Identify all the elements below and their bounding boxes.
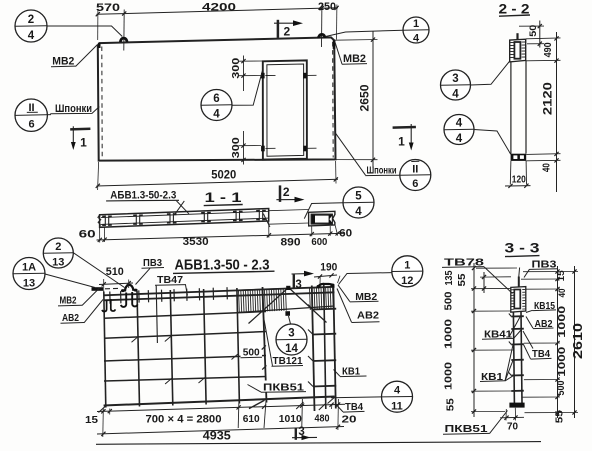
callout 2/13 leader: [73, 253, 124, 288]
svg-text:1: 1: [404, 259, 410, 271]
opening anchor top-right: [303, 73, 307, 79]
2-2 ext 120 right: [525, 161, 527, 185]
label TV78 leader: [484, 267, 513, 294]
plan designation leader a: [177, 201, 189, 214]
column loop bar: [318, 284, 333, 288]
1-1 ext a: [99, 228, 101, 243]
svg-text:5020: 5020: [211, 169, 236, 181]
mesh loop PV3 right leg: [132, 292, 137, 306]
callout circle 5/4: [343, 187, 374, 218]
plan designation leader b: [175, 201, 184, 214]
callout 4/11 leader: [331, 396, 382, 399]
opening anchor bottom-left: [261, 146, 265, 152]
tick 190 b: [329, 273, 333, 277]
svg-text:ТВ4: ТВ4: [532, 348, 550, 360]
tick 4935 b: [336, 425, 340, 429]
svg-text:3: 3: [288, 328, 294, 340]
plan designation underline: [106, 199, 179, 202]
shponki left II underline: [27, 111, 38, 113]
mesh dim1 tick 3: [237, 405, 241, 409]
tick 510 a: [102, 282, 106, 286]
mesh vertical v9 right edge: [333, 284, 336, 409]
mesh loop blob left: [121, 289, 125, 292]
label TV47 leader: [186, 285, 188, 296]
label AB2 mr underline: [352, 321, 380, 324]
svg-text:Шпонки: Шпонки: [367, 164, 397, 176]
callout circle 2/4: [15, 10, 47, 42]
svg-text:2: 2: [55, 241, 61, 253]
label TV78 underline: [442, 266, 484, 269]
callout circle 1/4: [403, 17, 429, 43]
label TV47 leader long: [156, 286, 157, 343]
mesh vertical v6 door-left: [263, 287, 267, 403]
callout circle 1A/13: [13, 258, 45, 290]
2-2 bar right edge: [525, 60, 527, 153]
svg-text:1000: 1000: [444, 361, 455, 390]
2650 ext top: [335, 39, 378, 42]
door opening inner rectangle: [267, 64, 304, 156]
300 top dim line: [243, 56, 245, 92]
mesh title underline: [173, 271, 275, 273]
tick 190 a: [318, 274, 322, 278]
2-2 ext 50 top: [519, 25, 544, 27]
label KV1 33 underline: [480, 380, 505, 383]
2-2 ext 490 top: [526, 37, 561, 40]
svg-text:500: 500: [243, 347, 260, 359]
3-3 rext y397: [522, 396, 560, 398]
svg-text:250: 250: [318, 1, 336, 13]
title 2-2 underline: [499, 15, 530, 16]
label TV4 33 leader a: [524, 345, 531, 359]
callout 3/14 leader: [289, 316, 291, 324]
mesh ext a: [102, 408, 105, 437]
mesh dim1 tick 4: [262, 405, 266, 409]
2-2 bar left edge: [510, 62, 512, 154]
bar right block outline: [309, 211, 335, 226]
tick 570 right: [122, 11, 126, 15]
svg-text:АБВ1.3-50-2.3: АБВ1.3-50-2.3: [110, 190, 176, 202]
svg-text:2 - 2: 2 - 2: [499, 0, 530, 16]
label MB2 mr leader: [338, 285, 350, 302]
tick 50 a: [538, 24, 542, 28]
1-1 ext e: [329, 226, 331, 236]
tick 250 right: [335, 6, 339, 10]
shponki right II overline: [411, 160, 419, 162]
svg-text:13: 13: [52, 256, 64, 268]
svg-text:6: 6: [213, 93, 219, 105]
300 bottom ext 2: [239, 159, 259, 161]
label TV4 33 leader b: [523, 331, 533, 349]
3-3 left tick 1: [472, 266, 476, 270]
label PV3 33 underline: [530, 268, 559, 271]
510 ext b: [128, 280, 130, 289]
3-3 ext y288: [471, 287, 511, 289]
callout 6/4 leader: [232, 69, 263, 106]
tick 2650 bottom: [371, 158, 375, 162]
3-3 top box stitch hatch: [511, 289, 514, 291]
tick 300b a: [241, 144, 245, 148]
svg-text:II: II: [412, 163, 418, 175]
label TV4 leader: [336, 405, 343, 412]
svg-text:1А: 1А: [22, 262, 36, 274]
anchor tick line 2: [307, 74, 316, 76]
callout 1/4 leader: [326, 30, 404, 36]
label MB2 right leader: [335, 42, 342, 65]
svg-text:490: 490: [542, 42, 554, 57]
callout circle 6/4: [201, 90, 232, 121]
1-1 ext f: [335, 226, 338, 236]
3-3 2610 dim line: [574, 266, 576, 418]
section marker 2 bottom arrowhead: [295, 197, 305, 203]
callout 1/12 leader: [339, 273, 393, 285]
lifting loop 2 centerline: [321, 5, 323, 48]
tick 500 a: [262, 345, 266, 349]
svg-text:1: 1: [398, 134, 405, 148]
tick 50 b: [538, 42, 542, 46]
3-3 right tick 7: [555, 410, 559, 414]
3-3 ext y350: [471, 349, 514, 351]
bar right block cap right: [329, 215, 332, 224]
mesh vertical v1: [104, 292, 106, 408]
label AB2 33 underline: [533, 327, 554, 330]
patch B top line: [309, 287, 335, 288]
door diagonal left: [249, 288, 289, 324]
section marker 1 left bar: [70, 128, 90, 131]
tick 570 left: [96, 12, 100, 16]
tick 120 a: [508, 184, 512, 188]
svg-text:1 - 1: 1 - 1: [205, 189, 242, 205]
svg-text:4: 4: [394, 385, 401, 397]
column ladder rungs: [313, 308, 336, 311]
1-1 ext c: [268, 221, 270, 237]
mesh vertical v4: [204, 289, 207, 405]
svg-text:4: 4: [456, 118, 463, 130]
svg-text:4: 4: [355, 206, 362, 218]
svg-text:5: 5: [355, 191, 362, 203]
5020 dimension line: [97, 179, 339, 186]
3-3 loop stub thin: [518, 268, 521, 277]
svg-text:2610: 2610: [571, 323, 585, 359]
svg-text:890: 890: [281, 237, 301, 249]
lifting loop 1 (top edge): [120, 38, 127, 42]
svg-text:6: 6: [412, 178, 418, 190]
svg-text:500: 500: [444, 291, 455, 310]
svg-text:300: 300: [230, 137, 242, 158]
svg-text:15: 15: [85, 414, 98, 426]
section marker 3 top arrowhead: [304, 271, 314, 277]
mesh vertical v8: [324, 285, 326, 410]
3-3 left tick 2: [472, 286, 476, 290]
2650 dimension line: [372, 32, 374, 169]
svg-text:1: 1: [413, 18, 419, 30]
dense mesh patch B: [309, 288, 312, 310]
ext line right corner: [336, 5, 338, 40]
tick 490 a: [554, 36, 558, 40]
section 1-1 bar outline: [100, 209, 269, 228]
svg-text:15: 15: [556, 270, 567, 282]
3-3 ext y411: [471, 411, 505, 413]
tick 40 b: [554, 158, 558, 162]
svg-text:2120: 2120: [542, 82, 554, 115]
1-1 tick 2: [103, 238, 107, 242]
svg-text:4935: 4935: [203, 430, 232, 442]
svg-text:3 - 3: 3 - 3: [505, 239, 540, 255]
tick 70 a: [504, 416, 508, 420]
tick 5020 left: [96, 184, 100, 188]
mesh bottom chord: [104, 397, 335, 406]
3-3 right tick 3: [555, 287, 559, 291]
3-3 inner tick a: [482, 275, 486, 279]
3-3 top box inner rect: [514, 290, 520, 309]
svg-text:АВ2: АВ2: [62, 312, 79, 324]
svg-text:4: 4: [213, 109, 220, 121]
mesh row B: [104, 312, 266, 319]
mesh ext e: [301, 399, 304, 427]
svg-text:55: 55: [446, 398, 457, 412]
label KV1 33 leader b: [505, 360, 513, 381]
mesh ext d: [264, 401, 266, 429]
label AB2 mesh leader: [84, 300, 103, 323]
svg-text:АВ2: АВ2: [357, 309, 379, 321]
label MB2 mesh leader: [82, 288, 100, 306]
mesh vertical v5: [237, 288, 240, 404]
label KV15 underline: [533, 309, 557, 312]
section marker 2 bottom arrow line: [276, 199, 295, 201]
svg-text:3: 3: [452, 73, 458, 85]
2-2 top box outline: [510, 39, 526, 62]
svg-text:55: 55: [457, 273, 468, 287]
svg-text:40: 40: [541, 163, 553, 172]
label MB2 right underline: [342, 63, 367, 66]
label PKV51 backing: [261, 381, 307, 393]
sheet frame line: [96, 442, 541, 445]
callout circle 3/4 (2-2): [441, 70, 471, 100]
svg-text:2: 2: [283, 185, 290, 199]
lifting loop 1 centerline: [123, 10, 125, 51]
mesh loop PV3 arch: [125, 285, 133, 292]
svg-text:135: 135: [444, 270, 455, 285]
300 bottom dim line: [243, 131, 245, 165]
bar joint dividers: [104, 216, 106, 227]
tick 2120 b: [554, 152, 558, 156]
callout circle 4/11: [382, 381, 413, 412]
3-3 inner tick b: [482, 286, 486, 290]
svg-text:3: 3: [295, 279, 301, 291]
tick 4935 a: [101, 432, 105, 436]
svg-text:700 × 4 = 2800: 700 × 4 = 2800: [146, 414, 222, 426]
190 ext b: [338, 276, 341, 283]
mesh ext g: [337, 399, 340, 430]
anchor tick line 1: [265, 74, 275, 76]
label TV4 33 underline: [531, 357, 552, 360]
svg-text:190: 190: [320, 262, 337, 274]
label MB2 left underline: [51, 65, 76, 68]
column loop blob right: [330, 284, 334, 287]
bar break diagonal: [263, 214, 270, 227]
section marker 1 left arrowhead: [71, 142, 76, 150]
190 dim line: [314, 275, 337, 277]
3-3 inner dim line: [483, 272, 485, 293]
ext line left corner: [97, 11, 99, 41]
mesh dim line 1: [97, 404, 345, 411]
svg-text:МВ2: МВ2: [60, 294, 77, 306]
callout circle 1/12: [392, 256, 423, 287]
mesh MB2 plate dash: [92, 287, 104, 291]
section marker 1 right arrow line: [410, 124, 412, 145]
svg-text:570: 570: [96, 2, 120, 14]
2-2 ext 120 left: [509, 161, 512, 185]
mesh ext f: [330, 404, 333, 409]
label KV41 underline: [482, 337, 514, 340]
mesh dim1 tick 1: [101, 409, 105, 413]
callout circle 3/14: [276, 324, 307, 355]
3-3 left tick 5: [472, 389, 476, 393]
opening anchor top-left: [261, 73, 265, 79]
3-3 right tick 2: [555, 277, 559, 281]
2650 ext bottom: [336, 159, 378, 161]
3-3 bottom cap: [509, 403, 524, 408]
svg-text:20: 20: [342, 413, 357, 425]
tick 70 b: [513, 415, 517, 419]
door diagonal node dot: [285, 311, 290, 316]
label TV121 underline: [272, 365, 304, 368]
label MB2 left leader: [76, 45, 98, 67]
mesh v1 top hook b: [111, 299, 116, 311]
3-3 2610 tick a: [572, 269, 576, 273]
mesh top chord 1: [104, 287, 335, 296]
tick 490 b: [554, 59, 558, 63]
70 dim line: [500, 416, 524, 419]
bar right block inner rect: [312, 215, 332, 224]
mesh MB2 dashed line: [105, 287, 120, 289]
mesh bar hooks: [132, 336, 139, 342]
3-3 rext y412: [525, 412, 579, 414]
svg-text:510: 510: [106, 266, 124, 278]
svg-text:480: 480: [315, 412, 330, 424]
svg-text:60: 60: [339, 227, 352, 239]
3-3 left tick 3: [472, 309, 476, 313]
120 dim line: [505, 185, 531, 187]
3-3 rext y379: [524, 379, 560, 381]
label MB2 mesh underline: [58, 304, 82, 307]
svg-text:11: 11: [391, 400, 403, 412]
1-1 ext d: [311, 226, 313, 236]
svg-text:13: 13: [23, 277, 35, 289]
label KV15 leader: [526, 310, 533, 312]
500 text backing: [241, 346, 263, 359]
svg-text:2: 2: [283, 24, 290, 38]
3-3 right tick 6: [555, 395, 559, 399]
callout circle 4/4 (2-2): [444, 115, 474, 145]
70 ext a: [505, 409, 507, 421]
opening anchor bottom-right: [303, 146, 307, 152]
label AB2 33 leader: [526, 317, 533, 329]
3-3 rext y289: [526, 288, 560, 290]
tick 300b b: [241, 158, 245, 162]
mesh dim1 tick 2: [108, 409, 112, 413]
top dimension line: [97, 8, 339, 15]
label PKV51 33 leader: [490, 411, 508, 434]
panel outline (plan view): [98, 37, 336, 160]
section marker 1 left arrow line: [72, 126, 74, 144]
door opening outer rectangle: [263, 60, 307, 159]
callout 5/4 leader: [304, 203, 343, 219]
patch A top line: [237, 289, 287, 291]
corner plate MB2 top-right: [333, 40, 336, 49]
2-2 bottom band window 2: [520, 155, 524, 159]
mesh ext c: [237, 401, 240, 428]
1-1 tick 1: [98, 238, 102, 242]
section marker 2 top bar: [277, 20, 280, 38]
svg-text:1000: 1000: [557, 346, 568, 377]
callout 3/4 leader: [471, 61, 510, 85]
1-1 tick 6: [336, 231, 340, 235]
svg-text:1010: 1010: [279, 413, 302, 425]
500 dim underline: [241, 356, 263, 359]
section marker 3 bottom bar: [295, 428, 297, 440]
mesh dim1 tick 7: [336, 402, 340, 406]
bar gap top line: [269, 210, 309, 211]
section marker 1 right bar: [393, 126, 416, 129]
svg-text:55: 55: [555, 410, 566, 424]
section marker 2 top arrowhead: [293, 20, 303, 26]
3-3 right dim line: [557, 266, 559, 418]
label PV3 33 leader: [524, 269, 530, 277]
svg-text:1000: 1000: [557, 305, 568, 338]
mesh vertical v7 door-right: [312, 286, 315, 412]
300 top ext 1: [239, 60, 263, 62]
tick 500 b: [262, 365, 266, 369]
5020 ext right: [335, 161, 337, 184]
tick 5020 right: [334, 177, 338, 181]
mesh row D: [104, 356, 266, 362]
3-3 rext y271: [523, 271, 578, 273]
svg-text:6: 6: [28, 119, 34, 131]
anchor tick line 4: [308, 147, 317, 149]
callout 1A/13 leader: [45, 274, 95, 288]
tick 300t a: [241, 59, 245, 63]
svg-text:4: 4: [452, 88, 459, 100]
svg-text:60: 60: [79, 229, 96, 241]
bar inner top line: [101, 211, 269, 217]
callout 4/4 leader: [474, 130, 511, 155]
3-3 rext y343: [524, 342, 560, 344]
5020 ext left: [98, 162, 99, 190]
section marker 3 bottom arrowhead: [302, 435, 311, 440]
svg-text:2: 2: [28, 14, 34, 26]
svg-text:МВ2: МВ2: [52, 56, 74, 68]
50 dim line: [539, 21, 541, 48]
mesh bottom hooks: [99, 405, 107, 412]
shponki right circle II/6: [400, 160, 431, 191]
label KV41 leader a: [514, 330, 522, 339]
label KV41 leader b: [509, 317, 520, 337]
3-3 left tick 4: [472, 348, 476, 352]
2-2 ext 490/2120: [526, 59, 561, 62]
3-3 left tick 6: [472, 409, 476, 413]
label PKV51 33 underline: [443, 432, 490, 435]
3-3 ext y277: [480, 276, 511, 278]
3-3 column bar right: [521, 311, 522, 404]
mesh loop blob right: [134, 289, 138, 292]
mesh dim line 2 (4935): [97, 427, 344, 435]
bar inner bottom line: [101, 218, 269, 224]
mesh ext b: [109, 409, 111, 415]
2-2 ext 50 bottom: [527, 43, 544, 45]
label MB2 mr underline: [350, 300, 379, 303]
tick 300t b: [241, 74, 245, 78]
shponki left underline-leader: [50, 107, 99, 114]
